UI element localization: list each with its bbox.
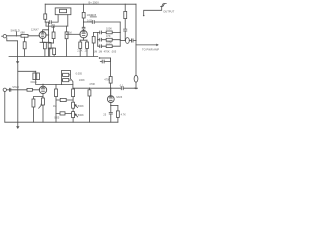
svg-text:470K: 470K — [89, 82, 95, 86]
svg-text:B+ 250V: B+ 250V — [89, 0, 100, 4]
svg-text:0.005: 0.005 — [76, 72, 83, 76]
svg-text:500K: 500K — [78, 113, 84, 117]
svg-text:OUTPUT: OUTPUT — [163, 10, 174, 14]
svg-text:68K: 68K — [21, 31, 26, 35]
svg-text:SHIELD: SHIELD — [11, 28, 20, 32]
svg-text:0.02: 0.02 — [87, 18, 93, 22]
svg-text:4.7K: 4.7K — [121, 113, 127, 117]
svg-text:1M: 1M — [68, 30, 72, 34]
svg-text:1M: 1M — [53, 104, 57, 108]
svg-text:47K: 47K — [106, 34, 111, 38]
svg-text:0.05: 0.05 — [54, 116, 60, 120]
svg-text:6AV6: 6AV6 — [116, 95, 123, 99]
svg-text:470K: 470K — [104, 77, 110, 81]
svg-text:500K: 500K — [78, 104, 84, 108]
svg-text:6AV6: 6AV6 — [31, 80, 38, 84]
svg-text:SHLD: SHLD — [12, 85, 19, 89]
svg-text:100K: 100K — [106, 40, 112, 44]
svg-text:1M 1M 470K .005: 1M 1M 470K .005 — [94, 49, 117, 53]
svg-text:0.1: 0.1 — [120, 83, 124, 87]
svg-text:100K: 100K — [106, 27, 112, 31]
svg-text:12AX7: 12AX7 — [31, 28, 39, 32]
svg-text:+105: +105 — [90, 13, 96, 17]
svg-text:TO PWR AMP: TO PWR AMP — [142, 48, 159, 52]
svg-text:100K: 100K — [79, 78, 85, 82]
svg-text:2.2K: 2.2K — [77, 48, 83, 52]
